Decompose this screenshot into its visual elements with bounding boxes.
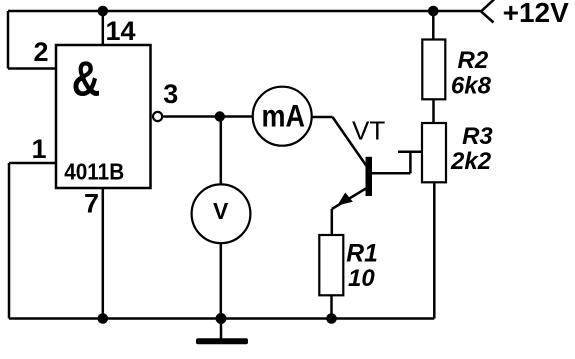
svg-text:2: 2 (34, 37, 49, 67)
node output bubble pin 3 (153, 112, 162, 121)
svg-text:6k8: 6k8 (451, 73, 492, 100)
wire pin2 horizontal (8, 67, 56, 70)
svg-text:10: 10 (348, 265, 375, 292)
op-amp U1 4011B gate body (56, 45, 151, 188)
wire pin1 horizontal (9, 162, 56, 165)
node dot bottom R1 (326, 313, 337, 324)
wire collector stub to R3 (398, 151, 422, 154)
svg-text:V: V (213, 198, 229, 224)
wire R2 to R3 (432, 99, 435, 123)
svg-text:+12V: +12V (503, 0, 569, 28)
wire left vertical pin1 to ground rail (8, 163, 11, 319)
wire ground stub (220, 319, 223, 340)
wire pin14 from top rail (102, 11, 105, 45)
node dot top R2 (428, 6, 439, 17)
wire bottom ground rail (9, 317, 434, 320)
svg-text:VT: VT (352, 116, 385, 146)
node dot top pin14 (98, 6, 109, 17)
svg-text:3: 3 (163, 79, 178, 109)
wire emitter to R1 (331, 209, 334, 235)
wire collector vertical (409, 152, 412, 173)
ground (196, 338, 248, 344)
wire emitter diagonal (332, 188, 367, 209)
node dot bottom V meter (216, 313, 227, 324)
meter V body (192, 184, 251, 243)
wire V meter to ground rail (220, 243, 223, 319)
resistor R2 (422, 40, 445, 100)
svg-text:R1: R1 (346, 241, 378, 268)
node dot bottom pin7 (98, 313, 109, 324)
node dot output pin3 (215, 111, 225, 121)
resistor R1 (319, 235, 343, 295)
terminal +12V arrow (481, 0, 495, 23)
wire collector horizontal (372, 172, 410, 175)
svg-text:7: 7 (84, 188, 99, 218)
transistor VT emitter arrow (339, 194, 352, 204)
wire base diagonal (333, 117, 367, 166)
wire top +12V rail (8, 10, 481, 13)
transistor Q1 VT base bar (366, 157, 373, 196)
wire mA meter to transistor base (312, 116, 333, 119)
svg-text:4011B: 4011B (64, 158, 124, 184)
wire feedback pin2 vertical (7, 11, 10, 69)
svg-text:1: 1 (32, 134, 47, 164)
svg-text:mA: mA (262, 98, 306, 134)
svg-text:2k2: 2k2 (450, 148, 492, 175)
wire pin7 to ground rail (102, 188, 105, 319)
svg-text:R3: R3 (462, 123, 493, 150)
svg-text:R2: R2 (458, 47, 489, 74)
resistor R3 (422, 123, 446, 182)
svg-text:14: 14 (106, 16, 136, 46)
wire node3 down to V meter (220, 117, 223, 186)
wire output pin3 to mA meter (163, 115, 252, 118)
wire top rail to R2 (432, 11, 435, 40)
meter mA body (253, 87, 312, 146)
svg-text:&: & (72, 52, 101, 106)
wire R3 to ground rail (433, 182, 436, 318)
wire R1 to ground rail (330, 295, 333, 318)
